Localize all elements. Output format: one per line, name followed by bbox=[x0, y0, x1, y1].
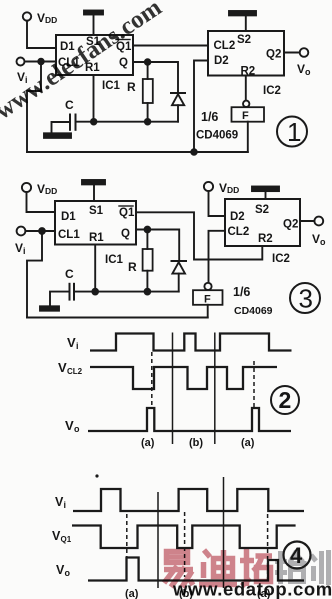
wire Q2 to Vo bbox=[284, 52, 300, 54]
VCL2 waveform bbox=[90, 367, 277, 389]
Vi input terminal (circuit 3) bbox=[17, 227, 26, 236]
capacitor C (circuit 3) bbox=[69, 284, 71, 300]
wire S1 stem bbox=[93, 15, 95, 36]
C label (circuit 1) bbox=[65, 98, 74, 112]
pin label D2 bbox=[214, 55, 229, 67]
svg-text:DD: DD bbox=[45, 186, 57, 196]
pin label S2 bbox=[237, 34, 251, 46]
junction node Q/R bbox=[145, 59, 151, 65]
separator line 2 (diagram 2) bbox=[214, 333, 216, 445]
watermark CJK char 2 (red) bbox=[199, 550, 237, 585]
dashed line b (diagram 4) bbox=[184, 512, 186, 577]
wire Vi to CL1 bbox=[25, 61, 56, 63]
wire Q1bar to CL2 bbox=[133, 45, 208, 47]
junction node R bottom bbox=[145, 119, 151, 125]
watermark CJK char 3 (red) bbox=[240, 549, 272, 586]
IC2 label (circuit 3) bbox=[272, 253, 290, 265]
svg-text:IC2: IC2 bbox=[272, 253, 290, 265]
C label (circuit 3) bbox=[65, 267, 74, 281]
1/6 label (circuit 1) bbox=[201, 110, 218, 124]
diode D (circuit 3) bbox=[172, 260, 187, 262]
ground bar (circuit 1 bottom) bbox=[44, 133, 71, 138]
pin label Q bbox=[121, 228, 130, 240]
Vi waveform label (diagram 2) bbox=[67, 335, 79, 351]
svg-text:CL2: CL2 bbox=[67, 367, 83, 376]
svg-text:DD: DD bbox=[45, 15, 57, 25]
svg-text:i: i bbox=[76, 341, 79, 351]
ground bar for S2 (circuit 1) bbox=[229, 11, 256, 15]
svg-text:DD: DD bbox=[227, 185, 239, 195]
Vi waveform (diagram 4) bbox=[73, 489, 304, 511]
svg-text:F: F bbox=[242, 110, 249, 122]
wire VDD to D1 bbox=[27, 21, 56, 48]
CD4069 label (circuit 1) bbox=[196, 130, 238, 142]
svg-text:V: V bbox=[37, 182, 45, 196]
wire RC node bbox=[76, 121, 178, 123]
Vo waveform label (diagram 2) bbox=[65, 418, 80, 434]
svg-text:CL1: CL1 bbox=[58, 229, 80, 241]
pin label CL1 bbox=[58, 229, 80, 241]
svg-text:Q2: Q2 bbox=[283, 219, 298, 231]
wire F input to bus bbox=[207, 305, 209, 318]
svg-text:i: i bbox=[64, 500, 67, 510]
svg-text:C: C bbox=[65, 267, 74, 281]
ground bar for S2 (circuit 3) bbox=[252, 187, 279, 192]
flip-flop IC1 box (circuit 1) bbox=[56, 35, 133, 75]
R label (circuit 1) bbox=[127, 80, 136, 94]
Vi label (circuit 3) bbox=[15, 241, 26, 256]
Vo terminal (circuit 1) bbox=[300, 48, 309, 57]
junction node bus/D2 bbox=[191, 149, 197, 155]
svg-text:D2: D2 bbox=[230, 211, 245, 223]
capacitor C (circuit 1) bbox=[69, 115, 71, 130]
VQ1 waveform label bbox=[52, 529, 72, 544]
pin label CL2 bbox=[228, 226, 250, 238]
svg-text:2: 2 bbox=[279, 387, 292, 413]
svg-text:Q: Q bbox=[119, 57, 128, 69]
VDD label (circuit 3 right) bbox=[219, 181, 239, 195]
wire RC node (circuit 3) bbox=[74, 291, 179, 293]
Vo waveform (diagram 2) bbox=[88, 408, 291, 431]
pin label D1 bbox=[61, 211, 76, 223]
watermark CJK char 5 (gray) bbox=[311, 550, 329, 585]
wire bottom bus (circuit 1) bbox=[27, 151, 248, 153]
IC1 label (circuit 1) bbox=[102, 80, 121, 92]
Vo label (circuit 3) bbox=[312, 232, 326, 247]
pin label CL2 bbox=[214, 40, 236, 52]
svg-text:Q1: Q1 bbox=[119, 207, 135, 219]
IC1 label (circuit 3) bbox=[105, 254, 124, 266]
pin label S2 bbox=[255, 204, 269, 216]
wire bottom bus (circuit 3) bbox=[27, 317, 208, 319]
resistor R (circuit 3) bbox=[143, 249, 153, 271]
flip-flop IC1 box (circuit 3) bbox=[55, 201, 136, 245]
junction node C/R1 bbox=[91, 119, 97, 125]
pin label R2 bbox=[241, 66, 256, 78]
VCL2 waveform label bbox=[58, 360, 83, 376]
svg-text:3: 3 bbox=[299, 284, 313, 314]
flip-flop IC2 box (circuit 3) bbox=[225, 199, 300, 246]
svg-text:F: F bbox=[204, 294, 211, 306]
VDD terminal (circuit 3 right) bbox=[204, 182, 213, 191]
svg-text:CL2: CL2 bbox=[228, 226, 250, 238]
svg-text:www.edatop.com: www.edatop.com bbox=[172, 579, 332, 599]
svg-text:V: V bbox=[67, 335, 76, 350]
svg-text:IC1: IC1 bbox=[105, 254, 124, 266]
svg-text:(b): (b) bbox=[189, 437, 203, 449]
F label (circuit 3) bbox=[204, 294, 211, 306]
Vi label (circuit 1) bbox=[17, 70, 28, 85]
dashed line a2 (diagram 2) bbox=[253, 361, 255, 409]
pin label R1 bbox=[85, 62, 100, 74]
pin label Q1-bar bbox=[116, 41, 132, 53]
wire R1 stem down (circuit 3) bbox=[94, 245, 96, 292]
wire S2 stem bbox=[265, 191, 267, 199]
inverter F bubble (circuit 1) bbox=[243, 101, 249, 107]
wire Q2 to Vo (circuit 3) bbox=[300, 220, 314, 222]
wire R2 to inverter bubble bbox=[245, 76, 247, 101]
pin label D2 bbox=[230, 211, 245, 223]
VDD terminal (circuit 1) bbox=[23, 12, 31, 20]
svg-text:IC1: IC1 bbox=[102, 80, 121, 92]
F label (circuit 1) bbox=[242, 110, 249, 122]
wire left rail (Vi feedback) bbox=[27, 62, 41, 153]
pin label S1 bbox=[86, 36, 101, 48]
svg-text:1: 1 bbox=[287, 117, 301, 147]
svg-text:S2: S2 bbox=[255, 204, 269, 216]
wire R top bbox=[146, 230, 148, 250]
svg-text:CL2: CL2 bbox=[214, 40, 236, 52]
Vo terminal (circuit 3) bbox=[314, 217, 323, 226]
circled number 2 bbox=[271, 386, 299, 414]
diode D (circuit 1) bbox=[171, 92, 185, 94]
svg-text:o: o bbox=[74, 424, 80, 434]
ground bar for S1 (circuit 1) bbox=[84, 11, 103, 15]
ground bar for S1 (circuit 3) bbox=[82, 180, 105, 184]
wire Q1bar to R2 bbox=[136, 212, 262, 259]
wire C to ground bbox=[52, 122, 71, 133]
pin label R2 bbox=[258, 233, 273, 245]
Vi waveform label (diagram 4) bbox=[55, 495, 66, 510]
svg-text:Q: Q bbox=[121, 228, 130, 240]
flip-flop IC2 box (circuit 1) bbox=[208, 31, 284, 76]
Vo waveform (diagram 4) bbox=[88, 558, 304, 581]
svg-text:Q1: Q1 bbox=[61, 535, 72, 544]
pin label S1 bbox=[89, 205, 104, 217]
svg-text:V: V bbox=[58, 360, 67, 375]
svg-text:V: V bbox=[15, 241, 23, 255]
pin label Q2 bbox=[266, 49, 281, 61]
svg-text:D2: D2 bbox=[214, 55, 229, 67]
svg-text:CD4069: CD4069 bbox=[196, 130, 238, 142]
junction node R bottom bbox=[145, 289, 151, 295]
svg-text:V: V bbox=[219, 181, 227, 195]
svg-text:R1: R1 bbox=[89, 232, 104, 244]
circled number 3 bbox=[290, 283, 320, 313]
pin label Q bbox=[119, 57, 128, 69]
wire F input to bus bbox=[247, 122, 249, 152]
wire CL2 to inverter output bbox=[209, 231, 226, 283]
wire Vi to CL1 bbox=[26, 230, 56, 232]
inverter F box (circuit 1) bbox=[232, 107, 265, 122]
wire C to ground (circuit 3) bbox=[50, 292, 70, 307]
svg-text:(a): (a) bbox=[125, 588, 139, 599]
wire VDD to D1 bbox=[27, 192, 56, 212]
wire R top bbox=[147, 62, 149, 79]
svg-text:(a): (a) bbox=[141, 437, 155, 449]
wire VDD to D2 bbox=[209, 191, 226, 216]
svg-text:C: C bbox=[65, 98, 74, 112]
stray dot mark bbox=[95, 474, 98, 477]
separator line B (diagram 4) bbox=[223, 477, 225, 588]
svg-text:V: V bbox=[297, 62, 305, 76]
svg-text:R2: R2 bbox=[241, 66, 256, 78]
pin label Q1-bar bbox=[119, 207, 135, 219]
svg-text:i: i bbox=[23, 246, 26, 256]
wire R bottom bbox=[146, 271, 148, 292]
svg-text:R2: R2 bbox=[258, 233, 273, 245]
svg-text:S2: S2 bbox=[237, 34, 251, 46]
svg-text:4: 4 bbox=[290, 543, 303, 568]
svg-text:(a): (a) bbox=[241, 437, 255, 449]
VDD label (circuit 1) bbox=[37, 11, 57, 25]
dashed line a2 (diagram 4) bbox=[267, 514, 269, 580]
wire S2 stem bbox=[245, 15, 247, 31]
dashed line a1 (diagram 2) bbox=[151, 352, 153, 409]
wire Q output (circuit 3) bbox=[136, 230, 179, 262]
svg-text:R: R bbox=[128, 260, 137, 274]
watermark CJK char 1 (red) bbox=[164, 552, 193, 588]
svg-text:V: V bbox=[312, 232, 320, 246]
svg-text:o: o bbox=[305, 67, 311, 77]
svg-text:V: V bbox=[37, 11, 45, 25]
pin label Q2 bbox=[283, 219, 298, 231]
resistor R (circuit 1) bbox=[143, 79, 153, 103]
pin label D1 bbox=[60, 41, 75, 53]
separator line 1 (diagram 2) bbox=[172, 333, 174, 445]
Vi input terminal (circuit 1) bbox=[17, 58, 25, 66]
svg-text:1/6: 1/6 bbox=[201, 110, 218, 124]
inverter F box (circuit 3) bbox=[193, 290, 223, 305]
inverter F bubble (circuit 3) bbox=[204, 283, 211, 290]
IC2 label (circuit 1) bbox=[263, 85, 281, 97]
VQ1 waveform bbox=[72, 526, 296, 549]
junction node Vi bbox=[38, 59, 44, 65]
VDD terminal (circuit 3 left) bbox=[22, 183, 31, 192]
wire S1 stem bbox=[93, 184, 95, 201]
junction node C/R1 bbox=[92, 289, 98, 295]
Vo waveform label (diagram 4) bbox=[56, 563, 71, 578]
Vi waveform (diagram 2) bbox=[90, 334, 292, 351]
wire left rail (circuit 3) bbox=[27, 231, 42, 318]
pin label CL1 bbox=[58, 57, 80, 69]
svg-text:D1: D1 bbox=[61, 211, 76, 223]
circled number 4 bbox=[284, 542, 311, 569]
Vo label (circuit 1) bbox=[297, 62, 311, 77]
dashed line a1 (diagram 4) bbox=[126, 514, 128, 558]
1/6 label (circuit 3) bbox=[233, 285, 250, 299]
wire R bottom bbox=[147, 103, 149, 122]
junction node Q/R bbox=[145, 227, 151, 233]
wire D2 to bus bbox=[194, 61, 208, 153]
R label (circuit 3) bbox=[128, 260, 137, 274]
VDD label (circuit 3 left) bbox=[37, 182, 57, 196]
CD4069 label (circuit 3) bbox=[234, 305, 273, 317]
pin label R1 bbox=[89, 232, 104, 244]
junction node Vi bbox=[39, 228, 45, 234]
circled number 1 bbox=[277, 117, 307, 147]
svg-text:o: o bbox=[320, 237, 326, 247]
svg-text:S1: S1 bbox=[89, 205, 104, 217]
svg-text:R: R bbox=[127, 80, 136, 94]
watermark CJK char 4 (gray) bbox=[275, 551, 307, 584]
ground bar (circuit 3) bbox=[40, 306, 59, 310]
svg-text:CD4069: CD4069 bbox=[234, 305, 273, 317]
svg-text:Q2: Q2 bbox=[266, 49, 281, 61]
svg-text:1/6: 1/6 bbox=[233, 285, 250, 299]
svg-text:V: V bbox=[65, 418, 74, 433]
wire Q output bbox=[133, 62, 178, 93]
wire R1 stem down bbox=[93, 75, 95, 122]
svg-text:IC2: IC2 bbox=[263, 85, 281, 97]
svg-text:o: o bbox=[65, 568, 71, 578]
separator line A (diagram 4) bbox=[157, 492, 159, 588]
